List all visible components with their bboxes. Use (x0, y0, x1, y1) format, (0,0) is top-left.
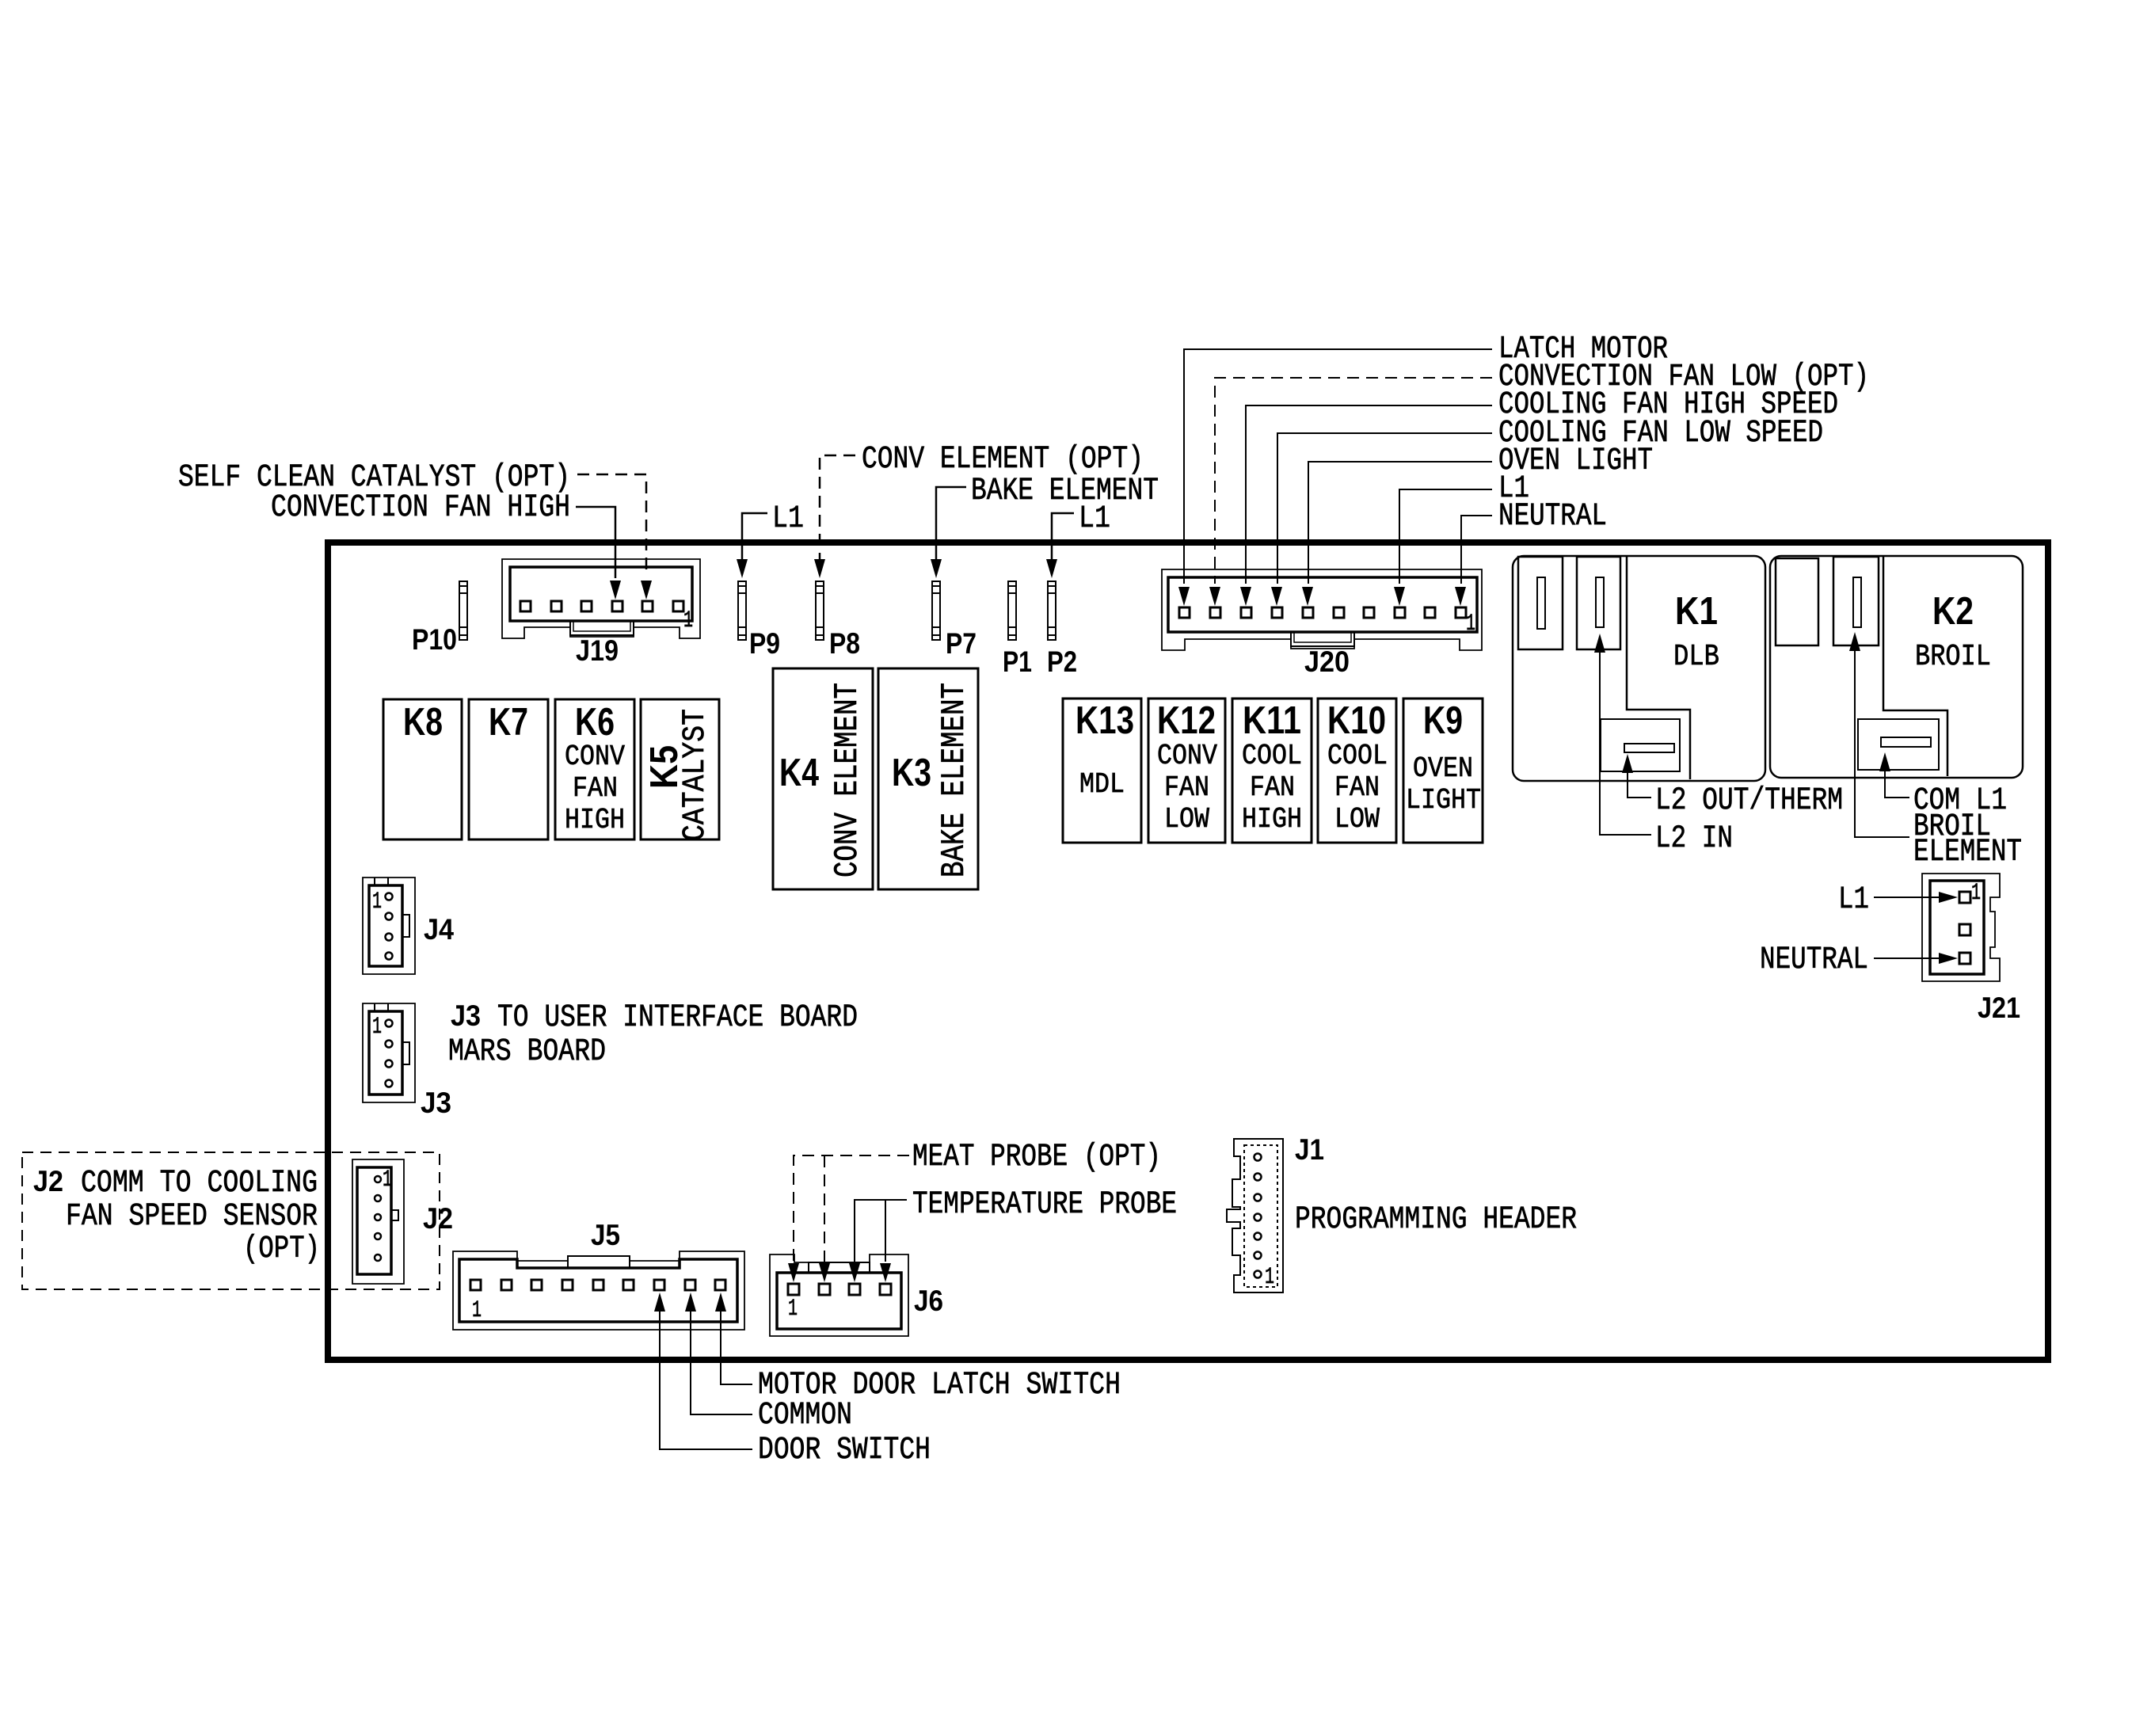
wire MOTOR DOOR LATCH SWITCH lead (721, 1312, 752, 1384)
arrow into J20 pin 4 (1271, 587, 1282, 606)
svg-text:P2: P2 (1047, 645, 1077, 678)
svg-text:1: 1 (1466, 611, 1475, 638)
connector J19 bottom key tab (570, 621, 634, 635)
svg-text:K8: K8 (403, 701, 443, 744)
arrow right into J21 pin 3 (1939, 953, 1958, 964)
J2 pin 1 (375, 1176, 381, 1182)
svg-text:BAKE ELEMENT: BAKE ELEMENT (935, 683, 973, 878)
connector J4 inner housing (369, 885, 402, 966)
arrow up into K2 tab 2 slot (1849, 632, 1860, 651)
wire lead COOLING FAN HIGH SPEED to J20 pin 3 (1246, 405, 1492, 584)
arrow into J6 pin 3 (849, 1263, 860, 1282)
relay K1 DLB assembly outline (1513, 556, 1765, 781)
svg-text:J21: J21 (1978, 992, 2020, 1024)
J20 pin 2 (1210, 607, 1220, 618)
relay K4 CONV ELEMENT (773, 668, 873, 889)
svg-text:K10: K10 (1327, 699, 1386, 742)
arrow up into J5 pin 8 (685, 1292, 696, 1312)
relay K11 COOL FAN HIGH (1232, 699, 1312, 843)
svg-text:P10: P10 (412, 623, 457, 656)
J5 pin 9 (715, 1280, 725, 1290)
connector J21 outer housing (1922, 874, 2000, 981)
svg-text:K3: K3 (892, 752, 931, 794)
svg-text:1: 1 (372, 1014, 382, 1041)
wire lead L1 to P9 (742, 513, 767, 559)
arrow into P2 (1046, 559, 1057, 578)
svg-text:K2: K2 (1932, 590, 1974, 633)
relay K9 OVEN LIGHT (1403, 699, 1483, 843)
J5 pin 2 (501, 1280, 512, 1290)
svg-text:NEUTRAL: NEUTRAL (1498, 499, 1607, 535)
svg-text:LOW: LOW (1164, 803, 1209, 836)
wire lead L2 IN to K1 tab 2 (1600, 653, 1651, 835)
wire lead BAKE ELEMENT to P7 (936, 487, 966, 559)
svg-text:K4: K4 (779, 752, 819, 794)
svg-text:HIGH: HIGH (565, 804, 625, 836)
wire dashed lead from SELF CLEAN CATALYST to J19 pin 5 (577, 474, 646, 575)
J5 pin 3 (531, 1280, 542, 1290)
J20 pin 4 (1272, 607, 1282, 618)
J20 pin 8 (1395, 607, 1405, 618)
arrow into J20 pin 3 (1240, 587, 1251, 606)
relay K8 (383, 699, 462, 839)
svg-text:1: 1 (383, 1167, 392, 1193)
wire solid lead from CONVECTION FAN HIGH to J19 pin 4 (576, 507, 615, 578)
J20 pin 1 (1179, 607, 1190, 618)
J20 pin 7 (1364, 607, 1374, 618)
K2 terminal tab 2 (1833, 557, 1879, 645)
svg-text:P8: P8 (829, 627, 860, 660)
J19 pin 2 (642, 601, 653, 611)
K2 COM L1 terminal box (1858, 719, 1939, 770)
svg-text:K1: K1 (1675, 590, 1718, 633)
K2 COM L1 terminal slot (1881, 737, 1931, 747)
wire lead L1 to J20 pin 8 (1399, 489, 1492, 584)
K1 relay body divider (1627, 557, 1690, 779)
svg-text:1: 1 (1971, 880, 1981, 907)
wire dashed lead MEAT PROBE to J6 pins 1,2 (794, 1155, 909, 1262)
J6 pin 1 (788, 1284, 799, 1295)
svg-text:J1: J1 (1295, 1133, 1324, 1166)
K1 terminal tab 2 slot (1596, 577, 1604, 627)
svg-text:J20: J20 (1304, 645, 1350, 678)
arrow into J20 pin 8 (1394, 587, 1405, 606)
K1 terminal tab 1 slot (1537, 577, 1545, 629)
relay K13 MDL (1063, 699, 1141, 843)
J5 pin 6 (623, 1280, 634, 1290)
svg-text:K12: K12 (1157, 699, 1216, 742)
connector J19 outer housing (502, 559, 700, 638)
wire L1 to J21 pin 1 (1874, 897, 1939, 898)
K1 L2 OUT terminal box (1601, 719, 1680, 771)
test point P7 (932, 581, 940, 640)
svg-text:P9: P9 (749, 627, 780, 660)
wire lead NEUTRAL to J20 pin 10 (1461, 516, 1492, 584)
J2 pin 4 (375, 1233, 381, 1239)
arrow into J19 pin 5 (641, 581, 652, 600)
J20 pin 10 (1456, 607, 1466, 618)
svg-text:FAN: FAN (573, 772, 618, 805)
J5 pin 5 (593, 1280, 603, 1290)
J1 pin 2 (1254, 1252, 1262, 1259)
svg-text:MOTOR DOOR LATCH SWITCH: MOTOR DOOR LATCH SWITCH (758, 1368, 1121, 1403)
svg-text:COOL: COOL (1327, 740, 1388, 772)
connector J1 outer housing (1227, 1139, 1283, 1292)
J5 pin 8 (685, 1280, 695, 1290)
J4 pin 1 (386, 893, 393, 900)
connector J2 inner housing (357, 1167, 391, 1274)
svg-text:CONV ELEMENT (OPT): CONV ELEMENT (OPT) (862, 442, 1144, 478)
J5 pin 4 (562, 1280, 573, 1290)
K1 terminal tab 2 (1577, 557, 1620, 649)
arrow into J6 pin 1 (788, 1263, 799, 1282)
J20 pin 3 (1241, 607, 1251, 618)
svg-text:COOL: COOL (1242, 740, 1302, 772)
J1 pin 4 (1254, 1214, 1262, 1221)
J6 pin 4 (880, 1284, 891, 1295)
wire lead LATCH MOTOR to J20 pin 1 (1184, 349, 1492, 584)
J2 pin 3 (375, 1214, 381, 1220)
connector J4 outer housing (363, 878, 415, 974)
svg-text:DLB: DLB (1673, 640, 1719, 674)
svg-text:CONV: CONV (1157, 740, 1217, 772)
svg-text:(OPT): (OPT) (243, 1232, 320, 1267)
connector J21 inner housing (1930, 881, 1984, 974)
svg-text:BROIL: BROIL (1915, 640, 1991, 674)
arrow into J20 pin 2 (1209, 587, 1220, 606)
J19 pin 5 (551, 601, 562, 611)
svg-text:FAN: FAN (1164, 771, 1209, 804)
svg-text:1: 1 (1265, 1264, 1274, 1291)
J1 pin 5 (1254, 1194, 1262, 1201)
svg-text:FAN: FAN (1250, 771, 1295, 804)
svg-text:NEUTRAL: NEUTRAL (1760, 942, 1868, 978)
svg-text:P7: P7 (946, 627, 977, 660)
J2 key bump (391, 1210, 398, 1220)
connector J20 inner housing (1168, 577, 1477, 632)
J19 pin 3 (612, 601, 622, 611)
test point P8 (816, 581, 824, 640)
J5 pin 1 (470, 1280, 481, 1290)
svg-text:K7: K7 (489, 701, 528, 744)
wire lead COM L1 to K2 slot (1885, 771, 1909, 798)
arrow right into J21 pin 1 (1939, 892, 1958, 903)
svg-text:TEMPERATURE PROBE: TEMPERATURE PROBE (912, 1187, 1177, 1223)
connector J3 outer housing (363, 1003, 415, 1102)
svg-text:J2: J2 (423, 1202, 453, 1235)
connector J6 inner housing (777, 1273, 901, 1329)
svg-text:CONV ELEMENT: CONV ELEMENT (828, 683, 866, 878)
svg-text:1: 1 (788, 1296, 798, 1323)
K1 L2 OUT terminal slot (1624, 744, 1674, 752)
relay K12 CONV FAN LOW (1148, 699, 1225, 843)
arrow into J20 pin 5 (1302, 587, 1313, 606)
svg-text:J4: J4 (424, 913, 454, 946)
arrow into P8 (814, 559, 825, 578)
J20 pin 5 (1303, 607, 1313, 618)
arrow into J6 pin 2 (819, 1263, 830, 1282)
svg-text:LOW: LOW (1334, 803, 1380, 836)
svg-text:FAN: FAN (1334, 771, 1380, 804)
K2 terminal tab 2 slot (1853, 577, 1861, 627)
svg-text:HIGH: HIGH (1242, 803, 1302, 836)
svg-text:LIGHT: LIGHT (1406, 784, 1481, 817)
test point P2 (1048, 581, 1056, 640)
svg-text:L1: L1 (1838, 882, 1869, 918)
J20 pin 6 (1334, 607, 1344, 618)
wire lead L2 OUT/THERM to K1 slot (1628, 773, 1651, 798)
connector J5 inner housing (459, 1259, 737, 1322)
K1 terminal tab 1 (1518, 557, 1563, 649)
arrow up into K1 L2 OUT slot (1622, 754, 1633, 773)
K2 relay body divider (1883, 557, 1947, 776)
svg-text:CATALYST: CATALYST (678, 709, 714, 841)
arrow up into K1 tab 2 slot (1594, 634, 1605, 653)
J2 pin 2 (375, 1195, 381, 1201)
connector J20 outer housing (1162, 569, 1482, 650)
svg-text:CONV: CONV (565, 740, 625, 773)
connector J19 inner housing (510, 567, 692, 621)
connector J3 inner housing (369, 1011, 402, 1095)
svg-text:J5: J5 (591, 1219, 620, 1251)
arrow into P7 (931, 559, 942, 578)
wire lead TEMPERATURE PROBE to J6 pins 3,4 (855, 1200, 907, 1262)
J19 pin 4 (581, 601, 592, 611)
svg-text:K13: K13 (1076, 699, 1134, 742)
connector J6 outer housing (770, 1254, 908, 1336)
svg-text:PROGRAMMING HEADER: PROGRAMMING HEADER (1295, 1202, 1577, 1238)
svg-text:MARS BOARD: MARS BOARD (448, 1034, 606, 1070)
J2 pin 5 (375, 1254, 381, 1261)
svg-text:TO USER INTERFACE BOARD: TO USER INTERFACE BOARD (497, 1000, 858, 1036)
J3 key bump (402, 1042, 409, 1064)
K2 terminal tab 1 (1776, 558, 1818, 645)
relay K2 BROIL assembly outline (1770, 556, 2023, 778)
test point P10 (459, 581, 467, 640)
arrow into J6 pin 4 (880, 1263, 891, 1282)
relay K3 BAKE ELEMENT (878, 668, 978, 889)
J20 pin 9 (1425, 607, 1435, 618)
connector J1 inner housing (1244, 1145, 1277, 1287)
J5 pin 7 (654, 1280, 664, 1290)
connector J5 top key tab (568, 1256, 630, 1268)
svg-text:L2 OUT/THERM: L2 OUT/THERM (1655, 783, 1843, 819)
wire NEUTRAL to J21 pin 3 (1874, 957, 1939, 959)
relay K10 COOL FAN LOW (1318, 699, 1396, 843)
svg-text:L2 IN: L2 IN (1655, 821, 1733, 857)
J4 mounting posts (374, 878, 375, 885)
wire lead L1 to P2 (1052, 513, 1074, 559)
svg-text:DOOR SWITCH: DOOR SWITCH (758, 1433, 931, 1468)
J6 pin 2 (819, 1284, 830, 1295)
wire DOOR SWITCH lead (660, 1312, 752, 1449)
connector J2 outer housing (352, 1159, 404, 1284)
J3 pin 1 (386, 1020, 393, 1027)
svg-text:OVEN: OVEN (1413, 752, 1473, 785)
svg-text:K11: K11 (1243, 699, 1301, 742)
svg-text:L1: L1 (1079, 501, 1110, 537)
svg-text:J2: J2 (33, 1165, 63, 1197)
connector J5 outer housing (453, 1251, 744, 1330)
J4 pin 2 (386, 913, 393, 920)
connector J20 bottom key tab (1291, 632, 1354, 646)
svg-text:J3: J3 (421, 1087, 451, 1119)
arrow into J19 pin 4 (610, 581, 621, 600)
svg-text:BAKE ELEMENT: BAKE ELEMENT (971, 474, 1159, 509)
svg-text:K9: K9 (1423, 699, 1463, 742)
svg-text:1: 1 (372, 889, 382, 916)
J1 pin 1 (1254, 1271, 1262, 1278)
test point P1 (1008, 581, 1016, 640)
J4 key bump (402, 915, 409, 937)
arrow up into J5 pin 7 (654, 1292, 665, 1312)
svg-text:1: 1 (683, 607, 693, 634)
svg-text:P1: P1 (1003, 645, 1032, 678)
board outline (328, 542, 2048, 1360)
arrow into J20 pin 10 (1455, 587, 1466, 606)
test point P9 (738, 581, 746, 640)
relay K7 (469, 699, 548, 839)
svg-text:MEAT PROBE (OPT): MEAT PROBE (OPT) (912, 1140, 1161, 1175)
svg-text:1: 1 (472, 1297, 482, 1324)
relay K6 CONV FAN HIGH (555, 699, 634, 839)
J6 pin 3 (849, 1284, 860, 1295)
J2 optional dashed boundary (22, 1152, 440, 1289)
svg-text:L1: L1 (772, 501, 804, 537)
J21 pin 2 (1959, 924, 1970, 935)
connector J6 top recess (809, 1262, 870, 1273)
wire lead BROIL ELEMENT to K2 tab 2 (1855, 651, 1909, 837)
wire lead OVEN LIGHT to J20 pin 5 (1308, 462, 1492, 584)
J4 pin 4 (386, 953, 393, 960)
arrow into P9 (737, 559, 748, 578)
wire dashed lead CONVECTION FAN LOW to J20 pin 2 (1215, 378, 1492, 584)
wire lead COOLING FAN LOW SPEED to J20 pin 4 (1277, 433, 1492, 584)
J19 pin 6 (520, 601, 531, 611)
svg-text:J6: J6 (914, 1285, 943, 1317)
svg-text:J3: J3 (451, 999, 481, 1032)
svg-text:ELEMENT: ELEMENT (1913, 835, 2022, 870)
J19 pin 1 (673, 601, 683, 611)
relay K5 CATALYST (641, 699, 719, 839)
J1 pin 7 (1254, 1154, 1262, 1161)
svg-text:J19: J19 (576, 634, 619, 667)
arrow up into J5 pin 9 (715, 1292, 726, 1312)
arrow into J20 pin 1 (1178, 587, 1190, 606)
J3 pin 4 (386, 1080, 393, 1087)
svg-text:COMM TO COOLING: COMM TO COOLING (81, 1166, 318, 1201)
J3 pin 3 (386, 1060, 393, 1068)
J4 pin 3 (386, 934, 393, 941)
J21 pin 1 (1959, 892, 1970, 903)
J1 pin 3 (1254, 1233, 1262, 1240)
wire COMMON lead (691, 1312, 752, 1414)
svg-text:MDL: MDL (1079, 768, 1125, 801)
svg-text:K6: K6 (575, 701, 615, 744)
J3 mounting posts (374, 1003, 375, 1011)
J21 pin 3 (1959, 953, 1970, 964)
arrow up into K2 COM L1 slot (1879, 752, 1890, 771)
svg-text:CONVECTION FAN HIGH: CONVECTION FAN HIGH (271, 490, 570, 526)
J3 pin 2 (386, 1041, 393, 1048)
J1 pin 6 (1254, 1174, 1262, 1181)
svg-text:FAN SPEED SENSOR: FAN SPEED SENSOR (66, 1199, 318, 1235)
wire dashed lead CONV ELEMENT to P8 (820, 455, 855, 559)
